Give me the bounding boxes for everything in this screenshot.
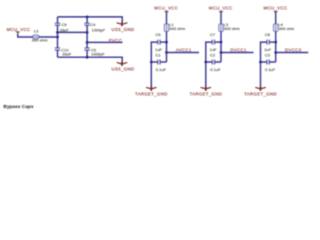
svg-text:33uF: 33uF xyxy=(60,27,70,32)
svg-text:33uF: 33uF xyxy=(62,52,72,57)
svg-text:1uF: 1uF xyxy=(264,47,271,52)
svg-text:C2: C2 xyxy=(210,52,216,57)
svg-text:DVCC3: DVCC3 xyxy=(285,47,302,52)
svg-text:MCU_VCC: MCU_VCC xyxy=(7,27,31,32)
svg-text:0.1uF: 0.1uF xyxy=(156,67,167,72)
svg-text:AVCC1: AVCC1 xyxy=(176,47,192,52)
svg-text:Bypass Caps: Bypass Caps xyxy=(3,104,33,110)
svg-text:1uF: 1uF xyxy=(210,47,217,52)
svg-text:0.1uF: 0.1uF xyxy=(265,67,276,72)
svg-text:C9: C9 xyxy=(61,22,67,27)
svg-text:C1: C1 xyxy=(156,52,162,57)
svg-text:C6: C6 xyxy=(156,32,162,37)
svg-text:MCU_VCC: MCU_VCC xyxy=(209,5,233,10)
svg-text:1uF: 1uF xyxy=(155,47,162,52)
svg-text:US5_GND: US5_GND xyxy=(112,27,135,32)
svg-text:US5_GND: US5_GND xyxy=(112,66,135,71)
svg-text:1000pF: 1000pF xyxy=(92,27,106,32)
svg-text:MCU_VCC: MCU_VCC xyxy=(154,5,178,10)
svg-text:C4: C4 xyxy=(90,22,96,27)
svg-text:600 ohm: 600 ohm xyxy=(32,37,48,42)
svg-text:600 ohm: 600 ohm xyxy=(279,26,295,31)
svg-text:600 ohm: 600 ohm xyxy=(170,26,186,31)
svg-text:PVCC: PVCC xyxy=(109,38,122,43)
svg-text:TARGET_GND: TARGET_GND xyxy=(135,91,168,96)
svg-text:1000pF: 1000pF xyxy=(91,52,105,57)
svg-text:C8: C8 xyxy=(265,32,271,37)
svg-text:TARGET_GND: TARGET_GND xyxy=(244,91,277,96)
svg-text:600 ohm: 600 ohm xyxy=(224,26,240,31)
svg-text:C3: C3 xyxy=(265,52,271,57)
svg-text:DVCC1: DVCC1 xyxy=(230,47,247,52)
svg-text:C7: C7 xyxy=(210,32,216,37)
svg-text:TARGET_GND: TARGET_GND xyxy=(189,91,222,96)
svg-text:0.1uF: 0.1uF xyxy=(210,67,221,72)
svg-text:MCU_VCC: MCU_VCC xyxy=(264,5,288,10)
svg-text:L2: L2 xyxy=(34,29,39,34)
